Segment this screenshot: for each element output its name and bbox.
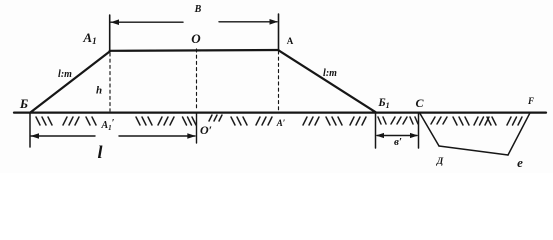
hatch group 3 (backslash) [86,117,96,125]
svg-text:h: h [96,85,102,97]
svg-text:С: С [415,96,424,110]
left slope line Б-А1 [30,51,110,113]
hatch group 13 (backslash, after Б1) [378,117,386,124]
dashed drop line below А1 [109,53,111,111]
svg-text:А: А [287,36,294,46]
hatch group 18 (slash+backslash, over ditch) [474,117,496,125]
embankment platform top edge A1-A [110,49,279,52]
svg-text:F: F [527,96,534,106]
dimension В right arrowhead [270,19,279,25]
svg-text:А′: А′ [276,118,286,128]
dimension В line left segment [111,21,183,23]
ditch bottom д-е [439,146,508,155]
hatch group 10 (slash) [303,117,319,125]
dimension l left arrowhead [31,133,40,139]
svg-text:А1′: А1′ [101,118,115,132]
svg-text:В: В [194,4,202,15]
svg-text:О: О [191,31,201,46]
dimension l line right segment [119,135,195,137]
dimension в' line [377,135,417,137]
dimension l line left segment [31,135,95,137]
solid centre line continuation below ground at О' [196,113,198,143]
hatch group 8 (backslash) [231,117,247,125]
dimension В line right segment [219,21,277,23]
svg-text:l: l [97,142,102,162]
svg-text:Д: Д [436,157,444,167]
hatch group 1 (backslash) [36,117,52,125]
extension tick below Б [29,113,31,147]
hatch group 15 (backslash, before С) [410,117,418,124]
dimension в' left arrowhead [376,133,384,138]
svg-text:О′: О′ [200,123,212,137]
ditch right slope е-F [508,113,530,155]
dashed drop line below А [278,51,280,111]
svg-text:Б: Б [19,96,28,111]
hatch group 7 (short slashes right of О) [209,115,222,121]
hatch group 5 (slash) [158,117,174,125]
dimension в' right arrowhead [410,133,418,138]
hatch group 14 (slash) [391,117,407,124]
svg-text:А1: А1 [82,30,96,46]
hatch group 4 (backslash) [136,117,152,125]
hatch group 19 (slash, before F) [507,117,522,125]
svg-text:е: е [517,155,523,170]
extension tick below Б1 [375,113,377,148]
svg-text:l:m: l:m [58,69,72,80]
dimension l right arrowhead [187,133,196,139]
dimension В left arrowhead [111,19,120,25]
dashed centre line below О [196,49,198,111]
hatch group 2 (slash) [63,117,79,125]
hatch group 12 (slash) [350,117,366,125]
hatch group 17 (backslash, over ditch) [453,117,469,125]
extension tick above А [278,14,280,50]
svg-text:Б1: Б1 [377,97,389,110]
ground hatching [36,115,522,125]
hatch group 9 (slash) [256,117,272,125]
hatch group 16 (slash, over ditch) [431,117,447,124]
ground line [14,111,546,113]
hatch group 6 (backslash) [183,117,197,125]
right slope line А-Б1 [279,50,377,112]
hatch group 11 (backslash) [326,117,342,125]
extension tick below С [418,113,420,148]
extension tick above А1 [109,15,111,51]
svg-text:l:m: l:m [323,68,337,79]
svg-text:в′: в′ [394,136,402,148]
ditch left slope С-д [420,114,439,147]
